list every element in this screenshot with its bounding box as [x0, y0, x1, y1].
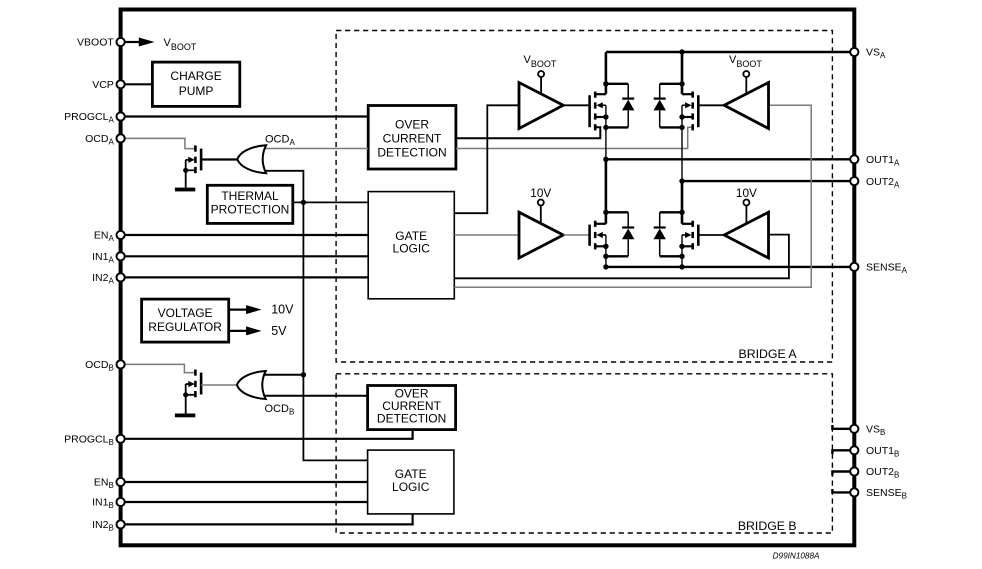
pin VSA	[850, 48, 858, 56]
svg-text:D99IN1088A: D99IN1088A	[773, 552, 820, 561]
svg-text:REGULATOR: REGULATOR	[148, 320, 222, 334]
or-gate B inputs	[262, 375, 368, 396]
svg-text:LOGIC: LOGIC	[393, 242, 431, 256]
wire gate logic A to buffer1 (top-left) input	[454, 105, 519, 213]
wire gate logic A to buffer4 (lower-right) input	[454, 235, 789, 279]
svg-text:SENSEB: SENSEB	[866, 487, 907, 501]
wire stub OUT1B	[832, 450, 850, 454]
svg-text:5V: 5V	[271, 324, 287, 338]
right pin labels	[866, 47, 908, 501]
gate logic B box	[368, 450, 454, 514]
svg-text:SENSEA: SENSEA	[866, 262, 908, 276]
or-gate A (output to left)	[237, 145, 266, 173]
junction dot OR B top input	[301, 372, 306, 377]
wire IN2A to gate logic A	[125, 276, 368, 278]
diode D3 body diode of M3	[622, 212, 634, 256]
pin IN1A	[117, 252, 125, 260]
wire ENA to gate logic A	[125, 234, 368, 236]
svg-text:BRIDGE A: BRIDGE A	[739, 347, 798, 361]
pin PROGCLA	[117, 112, 125, 120]
VBOOT arrow at top left	[125, 37, 197, 52]
thermal protection box	[207, 185, 292, 223]
junction dot thermal A	[301, 200, 306, 205]
gate logic A box	[368, 192, 454, 299]
chip outer border	[121, 10, 855, 546]
pin VSB	[850, 425, 858, 433]
over current detection A box	[368, 106, 456, 170]
pin PROGCLB	[117, 435, 125, 443]
wire stub SENSEB	[832, 489, 850, 492]
svg-text:THERMAL: THERMAL	[221, 189, 279, 203]
wire IN2B with riser to gate logic B bottom	[125, 514, 413, 525]
svg-text:VCP: VCP	[92, 79, 114, 91]
BRIDGE B dashed box	[336, 374, 832, 533]
diode D2 body diode of M2	[654, 84, 666, 128]
wire SENSEA node line	[606, 266, 850, 268]
wire thermal protection output to gate logic A	[293, 201, 368, 203]
pin OUT1A	[850, 155, 858, 163]
open drain MOSFET B: wire from OCDB pin (grey)	[125, 364, 194, 372]
wire VS rail bridge A to VSA pin	[606, 51, 850, 53]
svg-text:PROGCLB: PROGCLB	[64, 434, 114, 448]
pin VBOOT	[117, 38, 125, 46]
pin SENSEB	[850, 488, 858, 496]
pin IN1B	[117, 498, 125, 506]
pin ENB	[117, 478, 125, 486]
svg-text:VOLTAGE: VOLTAGE	[158, 306, 213, 320]
pin OUT1B	[850, 446, 858, 454]
svg-text:CHARGE: CHARGE	[170, 69, 221, 83]
pin IN2B	[117, 520, 125, 528]
wire IN1A to gate logic A	[125, 255, 368, 257]
pin IN2A	[117, 273, 125, 281]
wire gate logic A to buffer2 (top-right) input (grey)	[454, 105, 811, 287]
transistor M2 high-side right	[660, 52, 699, 181]
buffer B4 lower-right with 10V terminal	[698, 186, 768, 258]
svg-text:DETECTION: DETECTION	[377, 146, 446, 160]
junction dots bridge A	[603, 49, 685, 269]
svg-text:CURRENT: CURRENT	[383, 132, 442, 146]
wire ENB to gate logic B	[125, 481, 368, 483]
transistor M3 low-side left	[590, 159, 629, 267]
wire stub VSB	[832, 425, 850, 429]
over current detection B box	[368, 386, 456, 430]
voltage regulator box	[142, 299, 229, 342]
charge pump box	[152, 62, 239, 106]
voltage regulator 5V arrow	[229, 324, 287, 338]
wire PROGCLA to OCD A box	[125, 115, 368, 117]
pin SENSEA	[850, 263, 858, 271]
svg-text:PROTECTION: PROTECTION	[211, 203, 290, 217]
open drain MOSFET A: wire from OCDA pin (grey)	[125, 138, 194, 148]
buffer B2 top-right with VBOOT terminal	[698, 54, 768, 129]
pin VCP	[117, 80, 125, 88]
BRIDGE A dashed box	[336, 31, 832, 363]
wire VCP to charge pump	[125, 83, 153, 85]
diode D1 body diode of M1	[622, 84, 634, 128]
pin circles left side	[117, 38, 125, 529]
svg-text:BRIDGE B: BRIDGE B	[738, 519, 797, 533]
diode D4 body diode of M4	[654, 212, 666, 256]
wire PROGCLB with riser to OCD B box bottom	[125, 430, 413, 439]
svg-text:10V: 10V	[736, 186, 757, 200]
svg-text:OVER: OVER	[395, 118, 429, 132]
svg-text:PUMP: PUMP	[179, 84, 214, 98]
wire M-OCDB gate to OR gate B output (grey)	[201, 384, 237, 386]
pin OUT2A	[850, 177, 858, 185]
wire OCD A grey net right: OCD box to M2 source tap	[456, 127, 693, 148]
transistor M4 low-side right	[660, 181, 699, 267]
ground symbol B	[175, 414, 195, 418]
wire OUT2A node line	[682, 180, 850, 182]
wire OCD A sense line (black) from M1 source tap to OCD box	[456, 127, 600, 138]
svg-text:LOGIC: LOGIC	[392, 480, 430, 494]
pin OCDA	[117, 134, 125, 142]
node thermal net vertical (OR A input / thermal protection / OR B / gate logic B)	[262, 171, 368, 461]
svg-text:DETECTION: DETECTION	[377, 411, 446, 425]
svg-text:VBOOT: VBOOT	[77, 37, 114, 49]
buffer B3 lower-left with 10V terminal	[519, 186, 590, 258]
buffer B1 top-left with VBOOT terminal	[519, 54, 590, 129]
svg-text:10V: 10V	[271, 302, 294, 316]
wire stub OUT2B	[832, 472, 850, 476]
wire M-OCDA gate to OR gate A output	[201, 158, 237, 160]
wire OUT1A node line	[606, 158, 850, 160]
wire IN1B to gate logic B	[125, 501, 368, 503]
pin OUT2B	[850, 467, 858, 475]
pin ENA	[117, 231, 125, 239]
svg-text:10V: 10V	[530, 186, 551, 200]
wire OCD A grey net: OR gate A top input to OCD box left	[262, 148, 368, 150]
transistor M1 high-side left	[590, 52, 629, 159]
transistor M-OCDA open drain nmos	[183, 145, 201, 187]
pin circles right side	[850, 48, 858, 497]
left pin labels	[64, 37, 114, 533]
or-gate B (output to left)	[237, 371, 266, 399]
pin OCDB	[117, 360, 125, 368]
ground symbol A	[175, 188, 195, 192]
wire gate logic A to buffer3 (lower-left) input (grey)	[454, 234, 519, 236]
svg-text:PROGCLA: PROGCLA	[64, 111, 114, 125]
voltage regulator 10V arrow	[229, 302, 294, 316]
transistor M-OCDB open drain nmos	[183, 370, 201, 414]
